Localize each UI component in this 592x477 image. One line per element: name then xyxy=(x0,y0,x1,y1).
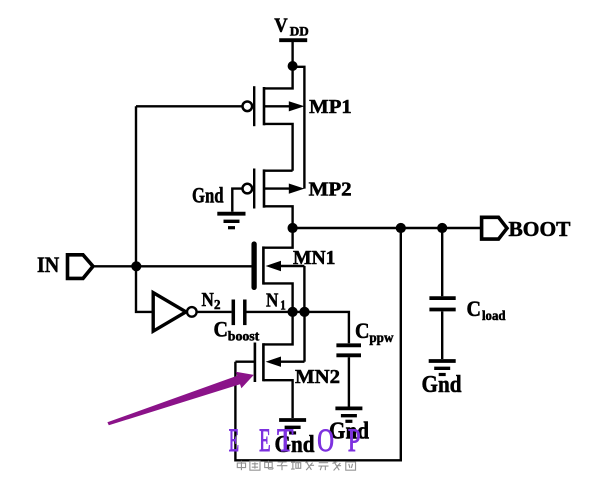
terminal IN xyxy=(68,255,94,279)
wire MP2 gate hook to ground xyxy=(232,189,242,212)
label C_load xyxy=(467,296,506,323)
wire VDD bar to junction xyxy=(291,40,293,66)
MN1 bulk arrow xyxy=(266,261,281,271)
wire IN column up to MP gates and down to inverter xyxy=(136,106,153,312)
svg-text:T: T xyxy=(277,423,294,459)
capacitor C_load xyxy=(429,228,455,359)
svg-text:DD: DD xyxy=(290,24,309,39)
wire IN to MN1 gate xyxy=(93,265,252,267)
junction dot IN node xyxy=(131,261,141,271)
node N2 label xyxy=(202,289,221,312)
MP2 bulk arrow xyxy=(264,187,290,189)
MN2 bulk arrow xyxy=(266,357,281,367)
svg-text:Gnd: Gnd xyxy=(422,372,463,398)
MN2 bulk wire up to N1 xyxy=(303,312,305,362)
MN1 bulk wire down to N1 xyxy=(303,266,305,312)
MN2 source stub down to ground xyxy=(263,380,292,418)
capacitor C_ppw xyxy=(336,345,361,406)
MP2 gate bubble xyxy=(243,184,253,194)
svg-text:MN1: MN1 xyxy=(293,247,336,269)
ground symbol under MN2 xyxy=(279,420,306,433)
MP2 gate bar xyxy=(253,169,255,209)
label C_boost xyxy=(214,317,260,344)
power VDD bar xyxy=(279,38,307,42)
MP1 channel bar xyxy=(263,87,266,125)
transistor MN2 xyxy=(255,312,305,418)
inverter U1 xyxy=(153,293,196,332)
MP1 source stub to VDD xyxy=(264,66,293,88)
ground symbol under C_ppw xyxy=(335,408,362,421)
MN1 source stub down to N1 xyxy=(263,283,292,312)
junction dot MP2 drain on BOOT rail xyxy=(288,223,298,233)
MP1 drain stub down to MP2 xyxy=(264,124,293,171)
label C_ppw xyxy=(355,318,394,345)
svg-text:1: 1 xyxy=(280,298,286,313)
wire right frame down, bottom rail, up to MN2 gate xyxy=(235,228,400,460)
annotation purple arrow xyxy=(107,372,253,426)
watermark chinese text xyxy=(237,461,355,471)
svg-text:E: E xyxy=(229,423,239,459)
MN1 drain stub to BOOT rail xyxy=(263,228,292,248)
junction dot N1 (source) xyxy=(288,307,298,317)
node N1 label xyxy=(266,289,286,312)
svg-text:C: C xyxy=(214,317,229,342)
svg-text:2: 2 xyxy=(214,297,221,312)
svg-text:E: E xyxy=(259,423,271,459)
svg-text:O: O xyxy=(317,423,334,459)
node VDD label xyxy=(274,15,309,39)
svg-text:C: C xyxy=(467,296,482,321)
wire inverter output to C_boost xyxy=(197,311,232,313)
junction dot N1 (bulk) xyxy=(299,307,309,317)
wire MP1/MP2 gate line from IN column xyxy=(136,105,243,107)
svg-text:P: P xyxy=(348,423,361,459)
MP2 source stub xyxy=(264,169,293,171)
MN2 drain stub up to N1 xyxy=(263,312,292,345)
junction dot right frame on BOOT rail xyxy=(396,223,406,233)
svg-text:MN2: MN2 xyxy=(295,366,340,388)
transistor MN1 xyxy=(254,228,304,312)
svg-text:V: V xyxy=(274,15,288,37)
MP1 gate bar xyxy=(253,86,255,126)
wire N1 rail xyxy=(247,312,349,343)
MP2 channel bar xyxy=(263,169,266,207)
svg-text:BOOT: BOOT xyxy=(509,217,572,241)
MP2 drain stub to BOOT rail xyxy=(264,206,293,228)
ground symbol at MP2 gate xyxy=(217,214,245,228)
MN2 gate bar xyxy=(254,343,257,383)
svg-text:load: load xyxy=(482,308,506,323)
svg-text:C: C xyxy=(355,318,370,343)
capacitor C_boost xyxy=(233,300,245,326)
wire BOOT rail xyxy=(293,227,480,229)
watermark EETOP xyxy=(229,423,361,459)
terminal BOOT xyxy=(482,217,507,239)
svg-text:IN: IN xyxy=(37,252,59,277)
wire bulk rail from VDD dot down to MP2 bulk xyxy=(293,67,305,189)
MN2 channel bar xyxy=(262,343,265,381)
transistor MP2 xyxy=(243,169,305,229)
transistor MP1 xyxy=(243,66,305,171)
MP1 bulk arrow xyxy=(264,105,290,107)
svg-text:boost: boost xyxy=(228,329,260,344)
svg-text:N: N xyxy=(266,289,278,311)
MP1 gate bubble xyxy=(243,102,253,112)
svg-text:Gnd: Gnd xyxy=(192,182,224,207)
MN1 channel bar xyxy=(262,246,265,284)
svg-text:N: N xyxy=(202,289,214,311)
MN1 thick gate bar xyxy=(251,244,256,287)
svg-text:MP2: MP2 xyxy=(309,178,352,200)
junction dot at VDD node xyxy=(288,61,298,71)
ground symbol under C_load xyxy=(429,361,456,375)
svg-text:ppw: ppw xyxy=(369,330,393,345)
junction dot C_load on BOOT rail xyxy=(437,223,447,233)
svg-text:MP1: MP1 xyxy=(309,96,352,118)
wire MN2 gate line xyxy=(235,361,254,363)
